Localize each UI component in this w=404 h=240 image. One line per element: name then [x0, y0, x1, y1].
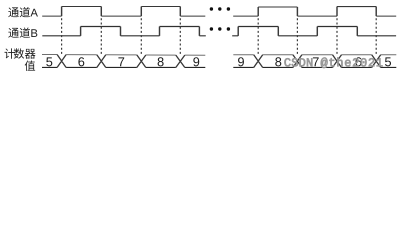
dashed alignment line at channel A edge 5 (x=258.2)	[257, 17, 259, 54]
counter value 6 (up count)	[78, 57, 84, 66]
wire waveform channel A horizontal segments	[42, 7, 396, 17]
watermark	[284, 58, 382, 68]
label channel B "通道B"	[8, 27, 37, 37]
counter value 8 (down count)	[275, 57, 281, 66]
counter value 7 (down count)	[313, 57, 319, 66]
label channel A "通道A"	[8, 7, 38, 17]
counter value 7 (up count)	[118, 57, 124, 66]
counter value 9 (up count)	[193, 57, 199, 66]
wire waveform channel A vertical edges	[62, 7, 377, 17]
counter value bus bottom line	[42, 66, 396, 68]
counter value bus top line	[42, 53, 396, 56]
dashed alignment line at channel A edge 8 (x=376.2)	[375, 17, 377, 54]
wire waveform channel B vertical edges	[81, 27, 358, 36]
dashed alignment line at channel A edge 3 (x=141.3)	[140, 17, 142, 54]
ellipsis dots row A	[210, 7, 213, 10]
label counter "计数器值"	[5, 48, 36, 71]
dashed alignment line at channel A edge 1 (x=61.6)	[61, 17, 63, 54]
dashed alignment line at channel A edge 4 (x=180.3)	[179, 17, 181, 54]
dashed alignment line at channel A edge 2 (x=101.3)	[100, 17, 102, 54]
counter value bus crossings	[57, 55, 381, 68]
ellipsis dots row B	[210, 27, 213, 30]
counter value 6 (down count)	[355, 57, 361, 66]
wire waveform channel B horizontal segments	[42, 27, 396, 36]
counter value 5 (up count)	[46, 57, 52, 66]
counter value 8 (up count)	[158, 57, 164, 66]
counter value 9 (down count)	[238, 57, 244, 66]
counter value 5 (down count)	[385, 57, 391, 66]
dashed alignment line at channel A edge 7 (x=337.0)	[336, 17, 338, 54]
dashed alignment line at channel A edge 6 (x=297.4)	[296, 17, 298, 54]
